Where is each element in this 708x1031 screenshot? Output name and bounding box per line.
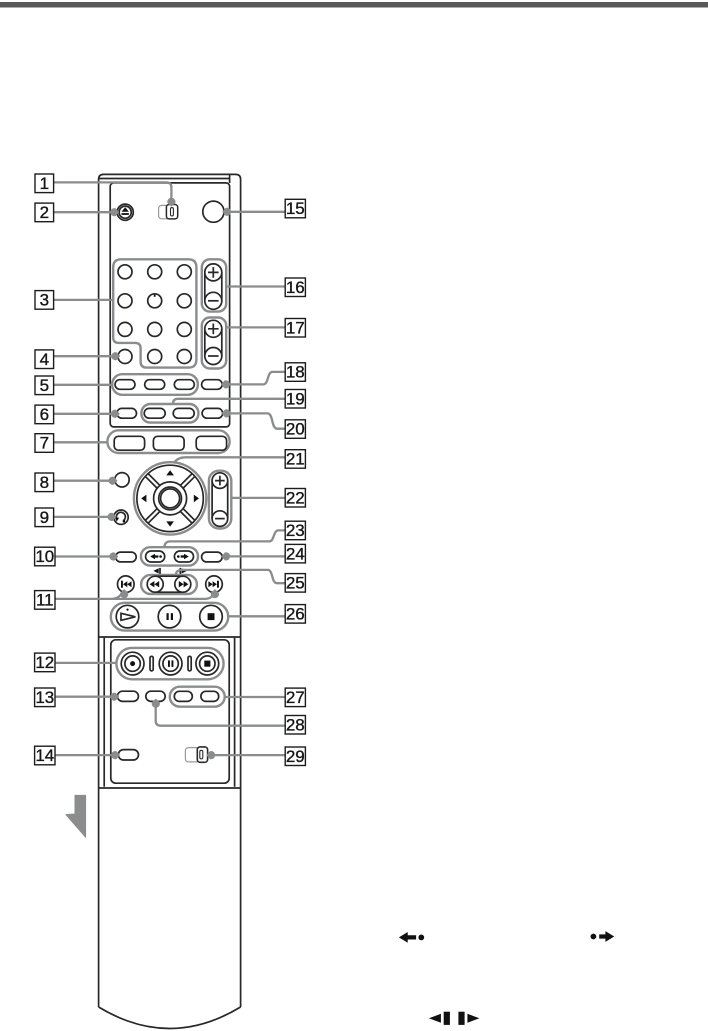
enter key <box>177 350 191 364</box>
separator 2 <box>188 656 191 671</box>
slow symbol bottom <box>429 1014 441 1023</box>
leader 25 <box>176 570 286 583</box>
top rule bar <box>0 2 708 8</box>
svg-text:24: 24 <box>286 544 305 563</box>
leader 11 <box>54 598 206 600</box>
B27 pill A <box>174 691 192 701</box>
record row enclosure B12 <box>116 648 223 679</box>
leader 17 <box>225 326 285 328</box>
leader 29 <box>212 754 286 756</box>
rocker 22 minus <box>212 511 228 527</box>
dpad left arrow <box>141 495 146 503</box>
prev button B11 <box>118 576 135 593</box>
dpad segment dividers <box>145 474 195 524</box>
pill B10 <box>116 552 137 562</box>
lower deck wall lines <box>104 638 234 787</box>
leader 26 <box>228 615 286 617</box>
callout box 3 <box>35 291 54 310</box>
advance symbol bottom <box>591 934 597 940</box>
svg-text:7: 7 <box>40 434 49 453</box>
leader 13 <box>54 696 114 698</box>
rocker 22 stadium <box>212 481 228 519</box>
callout box 25 <box>285 574 305 593</box>
leader 4 <box>54 355 115 357</box>
enclosure B23 <box>141 547 198 565</box>
row7 button 1 <box>114 436 144 450</box>
callout box 26 <box>285 605 305 624</box>
leader 22 <box>231 497 285 499</box>
callout box 15 <box>285 199 305 218</box>
callout box 29 <box>285 747 305 766</box>
svg-text:29: 29 <box>286 747 305 766</box>
slide switch B1 <box>159 205 178 218</box>
svg-text:6: 6 <box>40 405 49 424</box>
leader 15 <box>228 211 285 213</box>
enclosure B25 <box>141 575 197 594</box>
leader 23 <box>164 530 285 547</box>
number key 0 <box>148 350 162 364</box>
rocker 22 plus <box>212 473 228 489</box>
callout box 1 <box>35 174 54 193</box>
button B9 return <box>114 510 128 524</box>
pill B24 <box>202 552 223 562</box>
leader 5 <box>54 384 114 386</box>
step icon right <box>180 568 182 574</box>
leader 28 <box>156 703 286 726</box>
leader 16 <box>225 285 285 287</box>
callout box 5 <box>35 376 54 395</box>
svg-text:8: 8 <box>40 473 49 492</box>
ff button <box>175 576 191 592</box>
callout box 2 <box>35 203 54 222</box>
svg-text:1: 1 <box>40 174 49 193</box>
callout box 9 <box>35 508 54 527</box>
dpad B21 outer ring <box>134 462 206 534</box>
dpad right arrow <box>194 495 199 503</box>
enclosure B27 <box>170 687 225 707</box>
leader 1 <box>54 182 172 200</box>
leader 19 <box>173 399 285 404</box>
number key 9 <box>177 322 191 336</box>
row7 enclosure B7 <box>107 430 229 453</box>
callout box 24 <box>285 544 305 563</box>
leader 12 <box>54 662 117 664</box>
right rim stub <box>229 175 231 183</box>
svg-text:22: 22 <box>286 488 305 507</box>
callout box 20 <box>285 420 305 439</box>
rew button <box>147 576 163 592</box>
gray page arrow <box>66 795 86 837</box>
record button <box>121 652 144 675</box>
callout box 19 <box>285 390 305 409</box>
row5 pill A <box>115 380 135 390</box>
leader 21 <box>174 457 285 463</box>
pill B13 <box>117 691 138 701</box>
callout box 4 <box>35 350 54 369</box>
svg-text:4: 4 <box>40 350 49 369</box>
callout box 14 <box>35 746 55 765</box>
svg-text:25: 25 <box>286 574 305 593</box>
B27 pill B <box>201 691 219 701</box>
play row enclosure B26 <box>111 603 228 631</box>
svg-text:3: 3 <box>40 291 49 310</box>
remote bottom curve <box>99 1007 241 1029</box>
svg-text:14: 14 <box>35 746 54 765</box>
callout box 28 <box>285 716 305 735</box>
next button <box>206 576 223 593</box>
leader 20 <box>227 413 285 428</box>
rocker 22 enclosure <box>209 471 231 529</box>
rocker 16 minus <box>205 292 222 309</box>
replay symbol bottom <box>399 932 416 943</box>
svg-text:16: 16 <box>286 278 305 297</box>
number key 3 <box>177 265 191 279</box>
svg-text:26: 26 <box>286 605 305 624</box>
callout box 21 <box>285 450 305 469</box>
leader 18 <box>226 372 285 385</box>
keypad enclosure <box>113 259 196 367</box>
replay pill <box>146 551 165 562</box>
rocker 17 minus <box>205 348 222 365</box>
row6 pill B <box>173 408 194 418</box>
rocker 17 plus <box>205 320 222 337</box>
svg-text:27: 27 <box>286 688 305 707</box>
leader 9 <box>54 516 111 518</box>
row6 enclosure B19 <box>141 404 198 423</box>
step icon left <box>153 568 158 573</box>
button B8 <box>115 473 129 487</box>
row5 pill B <box>145 380 165 390</box>
inner top bevel line <box>99 178 229 180</box>
svg-text:13: 13 <box>35 688 54 707</box>
eject button B2 <box>117 204 133 220</box>
pause button <box>158 605 181 628</box>
number key 4 <box>118 294 132 308</box>
key B4 (outside enclosure) <box>118 350 132 364</box>
rocker 16 enclosure <box>202 259 226 311</box>
number key 1 <box>118 265 132 279</box>
rocker 16 plus <box>205 264 222 281</box>
svg-text:18: 18 <box>286 363 305 382</box>
number key 5 <box>148 294 162 308</box>
svg-text:23: 23 <box>286 521 305 540</box>
remote body outline <box>99 174 241 1007</box>
svg-text:9: 9 <box>40 508 49 527</box>
rew/ff stadium <box>155 576 183 592</box>
dpad down arrow <box>166 521 174 526</box>
leader 2 <box>54 211 114 213</box>
section panel S3 (record area) <box>111 640 229 783</box>
row6 pill A <box>144 408 165 418</box>
row5 enclosure <box>112 374 198 395</box>
svg-text:10: 10 <box>35 547 54 566</box>
svg-text:2: 2 <box>40 203 49 222</box>
leader 6 <box>54 413 115 415</box>
svg-text:20: 20 <box>286 420 305 439</box>
leader 27 <box>224 696 285 698</box>
number key 8 <box>148 322 162 336</box>
callout box 13 <box>35 688 55 707</box>
pill B18 <box>202 380 223 390</box>
stop button <box>200 605 223 628</box>
svg-text:21: 21 <box>286 450 305 469</box>
pill B20 <box>202 408 223 418</box>
leader 14 <box>54 754 115 756</box>
advance pill <box>174 551 193 562</box>
row5 pill C <box>174 380 194 390</box>
callout box 10 <box>35 547 55 566</box>
face bottom thick line <box>99 787 241 789</box>
pill B28 <box>146 691 165 701</box>
svg-text:11: 11 <box>36 591 54 610</box>
rocker 17 stadium <box>205 329 222 356</box>
callout box 17 <box>285 319 305 338</box>
dpad up arrow <box>166 470 174 475</box>
number key 2 <box>148 265 162 279</box>
svg-text:17: 17 <box>286 318 305 337</box>
callout box 16 <box>285 278 305 297</box>
pill B6 <box>117 408 137 418</box>
callout box 27 <box>285 688 305 707</box>
lower deck top line <box>99 636 241 638</box>
rocker 17 enclosure <box>202 318 226 369</box>
power button B15 <box>203 201 224 222</box>
play button <box>116 605 139 628</box>
section panel S1 (keypad area) <box>110 183 229 427</box>
callout box 7 <box>35 434 54 453</box>
svg-text:15: 15 <box>286 199 305 218</box>
row7 button 2 <box>153 436 184 450</box>
record stop button <box>196 652 219 675</box>
callout box 12 <box>35 653 55 672</box>
slide switch B29 <box>185 748 207 762</box>
row7 button 3 <box>196 436 226 450</box>
number key 6 <box>177 294 191 308</box>
svg-text:5: 5 <box>40 376 49 395</box>
svg-text:19: 19 <box>286 389 305 408</box>
dpad inner ring <box>154 482 187 515</box>
callout box 22 <box>285 489 305 508</box>
separator 1 <box>150 656 153 671</box>
svg-text:28: 28 <box>286 715 305 734</box>
leader 8 <box>54 480 112 482</box>
leader 10 <box>54 555 113 557</box>
callout box 23 <box>285 521 305 540</box>
svg-text:12: 12 <box>35 653 54 672</box>
dpad center button <box>159 487 182 510</box>
leader 3 <box>54 299 113 301</box>
number key 7 <box>118 322 132 336</box>
leader 24 <box>227 555 286 557</box>
callout box 18 <box>285 363 305 382</box>
callout box 11 <box>35 591 55 610</box>
record pause button <box>159 652 182 675</box>
pill B14 <box>118 750 138 760</box>
callout box 8 <box>35 473 54 492</box>
rocker 16 stadium <box>205 272 222 300</box>
leader 7 <box>54 441 109 443</box>
callout box 6 <box>35 405 54 424</box>
